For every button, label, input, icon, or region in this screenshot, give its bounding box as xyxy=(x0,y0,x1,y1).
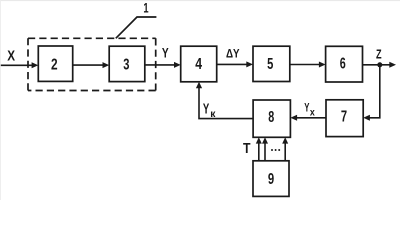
ellipsis dot 3 xyxy=(278,149,280,151)
svg-text:5: 5 xyxy=(267,56,273,73)
wire 7 to 8 (Yx) xyxy=(296,117,326,119)
wire 2 to 3 xyxy=(73,64,104,66)
svg-text:Y: Y xyxy=(203,101,210,117)
svg-text:7: 7 xyxy=(341,109,347,126)
ellipsis dot 2 xyxy=(275,149,277,151)
svg-text:Y: Y xyxy=(162,45,169,60)
arrowhead into 2 xyxy=(32,62,39,68)
svg-text:3: 3 xyxy=(123,56,129,73)
dashed block boundary (system 1) xyxy=(28,38,156,90)
arrowhead into 8 from 7 xyxy=(290,115,297,121)
block 4 xyxy=(181,46,217,82)
node Z junction dot xyxy=(377,62,382,67)
svg-text:9: 9 xyxy=(268,171,274,188)
leader line for label 1 xyxy=(116,17,157,38)
ellipsis dot 1 xyxy=(271,149,273,151)
wire 6 to output Z xyxy=(363,64,391,66)
scan edge artifact top xyxy=(0,0,400,1)
svg-text:8: 8 xyxy=(268,109,274,126)
wire 9 to 8 second xyxy=(264,143,266,161)
svg-text:Y: Y xyxy=(304,100,309,114)
arrowhead into 8 from 9 first xyxy=(256,137,262,143)
wire X input xyxy=(1,64,33,66)
arrowhead into 8 from 9 second xyxy=(262,137,268,143)
wire Z feedback down to 7 xyxy=(369,65,380,118)
block 7 xyxy=(326,100,363,137)
wire 9 to 8 third xyxy=(284,143,286,161)
wire 9 to 8 first xyxy=(258,143,260,161)
arrowhead into 4 bottom (Yk) xyxy=(196,82,202,89)
arrowhead output Z xyxy=(389,62,396,68)
svg-text:Z: Z xyxy=(376,47,382,61)
arrowhead into 4 xyxy=(174,62,181,68)
wire 5 to 6 xyxy=(290,64,320,66)
svg-text:X: X xyxy=(7,49,15,65)
svg-text:6: 6 xyxy=(340,56,346,73)
svg-text:ΔY: ΔY xyxy=(226,47,240,61)
arrowhead into 8 from 9 third xyxy=(282,137,288,143)
svg-text:2: 2 xyxy=(51,57,58,74)
arrowhead into 3 xyxy=(103,62,110,68)
wire 4 to 5 (dY) xyxy=(217,63,248,65)
block 6 xyxy=(326,46,363,82)
arrowhead into 5 xyxy=(246,61,253,67)
block 9 xyxy=(253,161,289,197)
arrowhead into 7 xyxy=(363,115,370,121)
block 8 xyxy=(253,100,290,137)
svg-text:4: 4 xyxy=(195,56,202,73)
wire 8 to 4 (Yk) xyxy=(199,88,253,119)
svg-text:к: к xyxy=(210,108,216,120)
arrowhead into 6 xyxy=(319,62,326,68)
block 3 xyxy=(109,46,145,81)
block 5 xyxy=(253,46,290,81)
block 2 xyxy=(38,46,72,81)
svg-text:х: х xyxy=(310,107,315,118)
svg-text:1: 1 xyxy=(143,0,148,16)
wire 3 to 4 (Y) xyxy=(145,64,175,66)
scan edge artifact left xyxy=(0,0,2,200)
svg-text:T: T xyxy=(243,141,251,157)
